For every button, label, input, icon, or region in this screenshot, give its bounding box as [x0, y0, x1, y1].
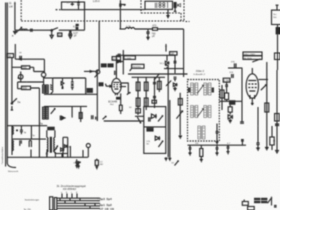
svg-text:4700: 4700 [113, 59, 119, 61]
potentiometer near bus [46, 145, 58, 155]
resistor 470 series [152, 25, 183, 31]
top-left box (input unit) [56, 2, 85, 10]
output transformer [46, 130, 56, 157]
trimmer circle [18, 72, 44, 89]
left tiny texts [24, 198, 39, 211]
label ECH4B [108, 100, 117, 107]
svg-text:LW: LW [9, 4, 13, 8]
antenna lead-in wire with arrow [14, 1, 16, 30]
screen dropper resistor and pot [176, 93, 182, 139]
antenna coupling caps row [13, 27, 52, 34]
svg-text:Ri 7000: Ri 7000 [244, 58, 252, 60]
boxed 300 no2 [18, 86, 40, 157]
filter coils mid pair [191, 106, 198, 118]
svg-text:300: 300 [22, 66, 27, 70]
wire y=71.4 left of tube [84, 71, 96, 73]
left edge vertical caption [1, 147, 4, 165]
speaker top right [272, 5, 283, 70]
dark box small [99, 82, 104, 86]
comp right on bus [241, 139, 244, 145]
node a label [12, 34, 14, 38]
B+ wire with choke [120, 25, 153, 29]
svg-text:Sp3 Sp4: Sp3 Sp4 [100, 197, 113, 201]
svg-text:1,1MΩ: 1,1MΩ [125, 58, 132, 60]
Filter II dashed box [188, 80, 220, 142]
ground below transformer [166, 8, 176, 18]
vertical right osc [95, 70, 98, 121]
comp B resistor with ground [95, 159, 104, 170]
osc box [44, 77, 97, 94]
pushbutton unit title [57, 184, 86, 191]
right columns near tube [127, 82, 130, 94]
oscillator coil pair 1 [43, 85, 49, 93]
tone control box [144, 107, 166, 154]
svg-text:St. Drucktastenaggregat: St. Drucktastenaggregat [57, 184, 86, 188]
resistor grid col 1 [136, 77, 141, 115]
vertical right of filter [220, 85, 224, 110]
svg-text:Tonwellenschalter: Tonwellenschalter [1, 147, 4, 165]
oscillator coil pair 2 [43, 107, 55, 119]
wire to cap [59, 29, 85, 31]
vertical x=258 with ground [256, 107, 260, 150]
tube EBL1 [246, 68, 268, 105]
power transformer box [145, 1, 173, 9]
osc bus y=106.4 [44, 106, 87, 122]
svg-text:470: 470 [152, 25, 157, 28]
EBL1 labels [243, 52, 280, 60]
col 3 caps [153, 77, 156, 108]
filter side caps [189, 88, 214, 93]
tube ECH4 [105, 55, 128, 95]
boxed 300 no1 [12, 66, 45, 73]
wire from box down to switch row [84, 2, 86, 30]
dashed shield border [21, 0, 189, 22]
dark label above transformer [47, 127, 55, 131]
dark box 50 osc [87, 88, 93, 93]
bottom-left mains block top wire [7, 125, 47, 126]
texts above tone box [144, 102, 148, 104]
B+ vertical drop [183, 29, 185, 77]
cap 220 left of tube [229, 72, 233, 78]
second wire [12, 139, 46, 147]
matrix labels [100, 197, 115, 211]
wire y=74 to filter [128, 73, 188, 75]
bottom output bus [188, 145, 247, 146]
symbol 24 below bus [73, 161, 80, 168]
boxed label pair above wire [112, 56, 135, 61]
left band-switch section [11, 58, 21, 111]
svg-text:1M: 1M [171, 53, 174, 56]
svg-text:1,05 A: 1,05 A [93, 0, 100, 3]
chassis bus y=157.3 [7, 146, 88, 158]
boxed label 25 [58, 33, 62, 37]
filter coils top pair [191, 83, 204, 95]
osc caps right [92, 115, 94, 119]
capacitor 0.07u with ground [69, 24, 79, 39]
dark boxed 50 [146, 128, 153, 132]
wire from filter to EM [219, 100, 244, 123]
cap 470 [228, 59, 260, 101]
output stage right columns [265, 62, 279, 153]
svg-text:1,7k: 1,7k [126, 25, 131, 28]
svg-text:Netzanschl.: Netzanschl. [8, 170, 19, 173]
top bus wire y=9.6 [85, 0, 146, 29]
filter right stub to ground [215, 124, 218, 145]
wide boxed label 750(250) [130, 64, 144, 71]
label 5a [40, 122, 43, 125]
rail bottom text [8, 170, 19, 173]
bottom right pickup cluster [242, 196, 276, 210]
svg-text:300: 300 [22, 86, 27, 90]
filter label [194, 69, 206, 76]
long verticals to ground [166, 66, 171, 157]
TP cap [15, 44, 44, 85]
cap on tube stub [115, 71, 117, 75]
cathode resistor with dark label [116, 93, 132, 114]
node a (top left omega label) [9, 1, 13, 8]
left column components mid-right [170, 52, 177, 91]
svg-text:ECH4B: ECH4B [108, 100, 117, 104]
switch on AVC line [154, 74, 160, 81]
electrolytic (dark) [174, 2, 177, 8]
rectifier diode [178, 4, 181, 7]
diode in osc [60, 116, 65, 121]
AVC components right of filter [223, 78, 230, 101]
diode at bus [61, 148, 64, 151]
bus hanging caps and resistors [188, 143, 230, 162]
dark double box 100pF 30pF [101, 63, 114, 67]
vertical x=272 resistor [270, 126, 274, 150]
left rail double line [6, 3, 16, 168]
wire y=55.3 with caps [116, 44, 183, 69]
jack circle [86, 144, 90, 158]
capacitor 5uF [31, 126, 35, 139]
pilot lamp [67, 2, 75, 5]
comp A cap with ground [75, 159, 78, 168]
grid feed wire [103, 116, 144, 121]
grid bus [132, 77, 165, 78]
svg-text:1,1M: 1,1M [224, 80, 229, 83]
svg-text:50: 50 [8, 54, 12, 58]
svg-text:750(250): 750(250) [132, 67, 141, 69]
coil on left rail wire [11, 126, 13, 155]
boxed 50 on rail [7, 54, 13, 58]
vertical x=123.3 [117, 50, 124, 75]
filter coil bottom [198, 126, 205, 139]
pushbutton matrix [50, 192, 100, 210]
svg-text:Filter II: Filter II [196, 69, 204, 73]
main vertical line (IF input) [96, 21, 100, 74]
svg-text:K-Bandfil. II: K-Bandfil. II [194, 74, 206, 76]
trimmer on osc feed [41, 73, 45, 77]
svg-text:U7 U8 U9: U7 U8 U9 [100, 207, 115, 210]
col 4 resistor [157, 77, 161, 92]
wire into tone box [135, 116, 144, 123]
svg-text:KM 4558463: KM 4558463 [63, 188, 77, 191]
svg-text:EBL1 230V: EBL1 230V [244, 54, 256, 56]
capacitor in input box [77, 1, 80, 10]
capacitor 700pF to ground [146, 28, 156, 39]
resistor grid col 2 [144, 77, 148, 110]
svg-text:Sonderleitungen: Sonderleitungen [25, 198, 40, 201]
switch S (antenna) [50, 28, 58, 39]
diode and cap right of transformer [55, 137, 71, 157]
grounds below tone box [164, 157, 178, 165]
capacitor 4uF [16, 126, 27, 135]
svg-text:Sp. 25b: Sp. 25b [24, 209, 32, 210]
